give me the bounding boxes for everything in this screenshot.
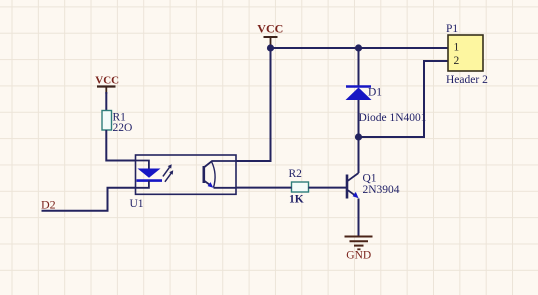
wire Q1 emitter to GND (358, 199, 360, 237)
svg-text:1: 1 (454, 42, 460, 54)
svg-text:1K: 1K (289, 194, 304, 206)
light arrow 2 (165, 170, 173, 182)
wire VCC to R1 (105, 92, 107, 111)
wire opto emitter to R2 (236, 187, 292, 189)
light arrow 1 (163, 164, 172, 176)
wire junction down to Q1 collector (358, 137, 360, 173)
transistor Q1 2N3904 (347, 172, 400, 198)
phototransistor base bar (203, 166, 206, 183)
wire D1 top (358, 48, 360, 86)
wire VCC junction to header pin 1 (271, 47, 449, 49)
wire R1 to opto anode pin (106, 130, 135, 161)
LED cathode bar (137, 179, 163, 182)
LED anode lead (136, 161, 149, 169)
svg-text:Q1: Q1 (363, 172, 377, 184)
resistor R2 (289, 168, 309, 205)
svg-text:U1: U1 (130, 198, 144, 210)
power port VCC (left) (95, 75, 119, 94)
wire VCC down to optocoupler collector (236, 48, 271, 161)
svg-text:D1: D1 (368, 87, 382, 99)
svg-text:Header 2: Header 2 (446, 74, 488, 86)
phototransistor collector (204, 161, 236, 168)
svg-text:GND: GND (346, 250, 371, 262)
wire R2 to Q1 base (309, 187, 347, 189)
junction node at VCC (267, 44, 274, 51)
svg-text:P1: P1 (446, 23, 458, 35)
optocoupler U1 (130, 155, 237, 210)
LED triangle (138, 169, 161, 178)
connector P1 Header 2 (446, 23, 488, 86)
junction node at D1 top (355, 44, 362, 51)
svg-text:Diode 1N4001: Diode 1N4001 (359, 112, 427, 124)
svg-text:D2: D2 (41, 198, 56, 212)
ground GND (345, 237, 373, 262)
wire D2 to opto cathode pin (42, 188, 136, 211)
junction node at D1 bottom (355, 133, 362, 140)
envelope arc (212, 162, 216, 188)
svg-text:VCC: VCC (95, 75, 119, 87)
svg-text:VCC: VCC (257, 21, 283, 35)
LED cathode lead (136, 181, 149, 188)
resistor R1 (102, 111, 132, 135)
svg-text:2N3904: 2N3904 (363, 184, 400, 196)
wire junction to header pin 2 (359, 61, 449, 137)
svg-text:R2: R2 (289, 168, 303, 180)
power port VCC (top) (257, 21, 283, 46)
phototransistor emitter (204, 181, 212, 187)
svg-text:22O: 22O (113, 122, 133, 134)
diode D1 (346, 87, 427, 124)
wire D1 bottom to junction (358, 112, 360, 137)
svg-text:2: 2 (454, 55, 460, 67)
